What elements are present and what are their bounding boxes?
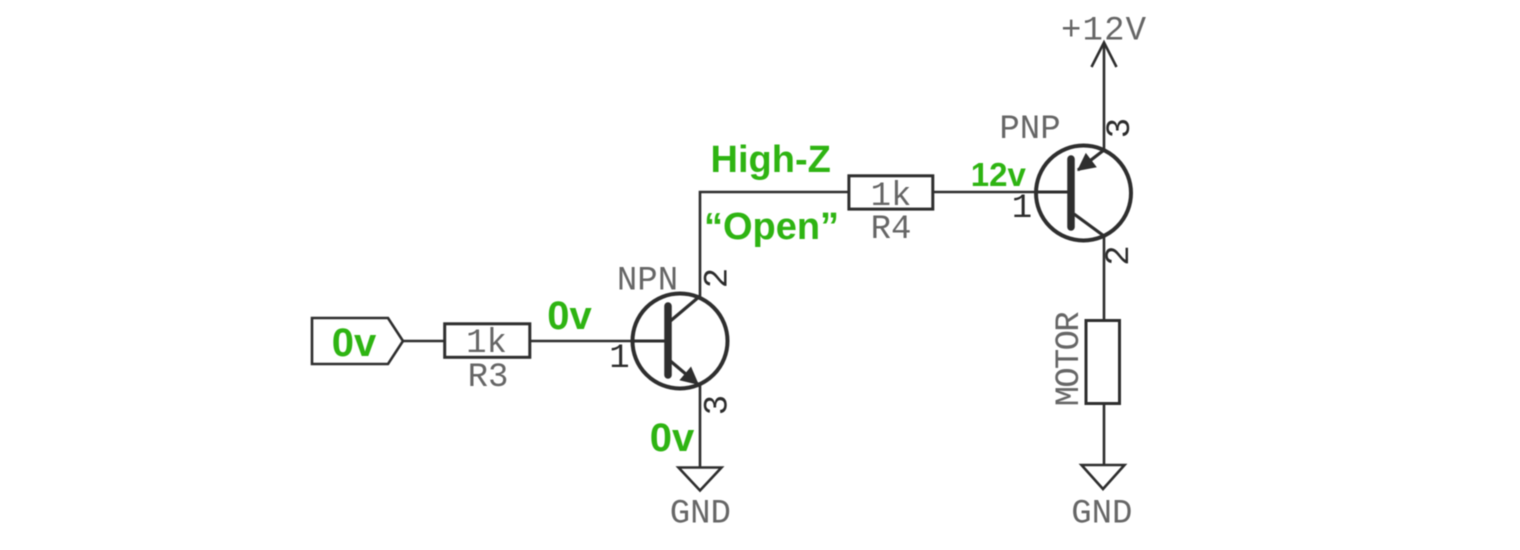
resistor R4 (849, 176, 933, 209)
svg-text:“Open”: “Open” (704, 206, 839, 248)
svg-text:GND: GND (1071, 496, 1132, 534)
svg-text:High-Z: High-Z (711, 139, 831, 181)
svg-text:2: 2 (1101, 245, 1139, 265)
motor M1 (1086, 321, 1120, 404)
svg-text:PNP: PNP (999, 111, 1060, 149)
wire +12V to Q2 emitter (1103, 43, 1106, 151)
wire Q2 collector to motor (1103, 236, 1106, 320)
svg-text:0v: 0v (547, 294, 592, 338)
input flag 0v (312, 318, 403, 365)
svg-text:R3: R3 (468, 359, 509, 397)
svg-text:0v: 0v (332, 321, 377, 365)
svg-text:3: 3 (700, 395, 738, 415)
svg-text:GND: GND (670, 496, 731, 534)
wire R4 to Q2 base (934, 191, 1037, 194)
wire Q1 emitter to GND (699, 385, 702, 469)
svg-text:1k: 1k (466, 325, 507, 363)
ground GND (Q1) (679, 468, 722, 491)
svg-text:1: 1 (609, 340, 629, 378)
svg-text:12v: 12v (971, 156, 1027, 193)
wire Q1 collector up and right to R4 (700, 192, 849, 297)
resistor R3 (445, 324, 530, 358)
svg-text:NPN: NPN (617, 263, 678, 301)
svg-text:0v: 0v (650, 416, 695, 460)
wire flag to R3 (403, 340, 445, 343)
transistor Q2 PNP (1036, 146, 1131, 241)
wire R3 to Q1 base (531, 340, 634, 343)
transistor Q1 NPN (633, 294, 728, 389)
ground GND (motor) (1082, 465, 1125, 489)
svg-text:R4: R4 (871, 211, 912, 249)
power symbol +12V (1092, 43, 1117, 68)
svg-text:MOTOR: MOTOR (1051, 311, 1089, 406)
wire motor to GND (1103, 404, 1106, 466)
svg-text:3: 3 (1102, 118, 1140, 138)
svg-text:1: 1 (1012, 190, 1032, 228)
svg-text:2: 2 (700, 268, 738, 288)
